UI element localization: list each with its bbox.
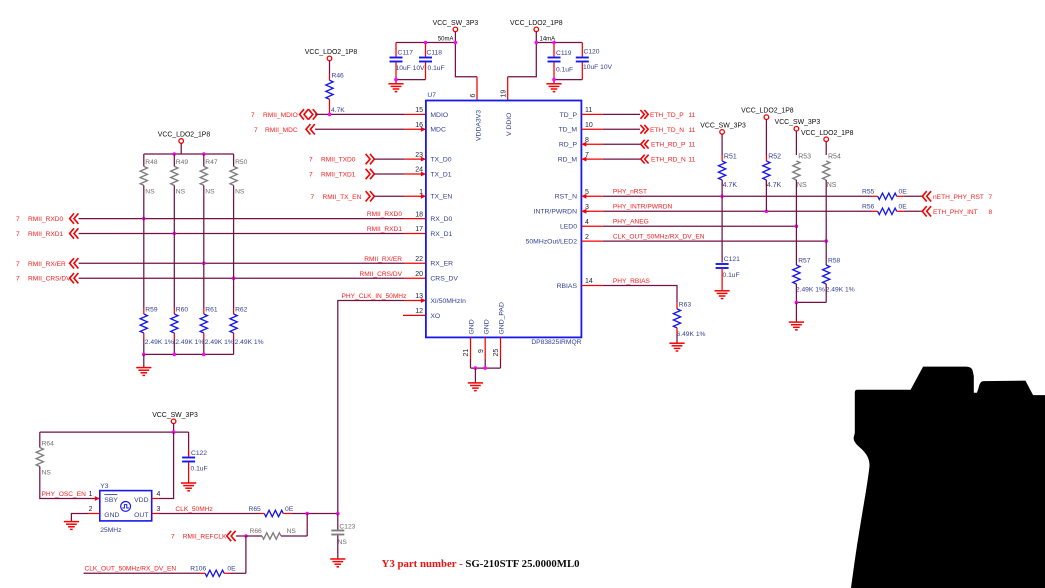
svg-text:PHY_OSC_EN: PHY_OSC_EN xyxy=(42,491,87,498)
svg-text:R60: R60 xyxy=(176,307,189,314)
resistor R50 (NS) xyxy=(230,166,237,185)
resistor R106 xyxy=(205,570,224,576)
wire R49 bottom lead xyxy=(173,185,175,233)
junction C118 top xyxy=(424,41,428,45)
wire R56 left red xyxy=(872,210,878,212)
junction RMII_CRS/DV xyxy=(232,276,236,280)
pin stub Y3 VDD xyxy=(152,498,159,500)
svg-text:24: 24 xyxy=(415,167,423,174)
resistor R57 xyxy=(793,265,800,284)
wire REFCLK to R66 xyxy=(246,535,262,537)
svg-text:GND: GND xyxy=(469,319,476,334)
offpage arrow RMII_RXD0 xyxy=(70,213,79,223)
offpage arrow RMII_RXD1 xyxy=(70,228,79,238)
wire R54/R58 column xyxy=(825,180,827,265)
wire R53 top xyxy=(795,131,797,155)
wire PHY_CLK_IN_50MHz to XI xyxy=(338,301,405,514)
junction rail R61 xyxy=(202,353,206,357)
wire ETH_TD_N xyxy=(603,128,640,130)
wire R106 right red xyxy=(224,572,230,574)
svg-text:NS: NS xyxy=(338,539,348,546)
offpage arrow RMII_RX/ER xyxy=(70,258,79,268)
wire bottom rail C119-C120 xyxy=(554,79,582,81)
svg-text:XI/50MHzIn: XI/50MHzIn xyxy=(430,298,466,305)
wire R66 branch down xyxy=(306,514,308,537)
svg-text:V DDIO: V DDIO xyxy=(506,113,513,136)
svg-text:25: 25 xyxy=(493,349,500,357)
wire ground drop terminations xyxy=(143,354,145,367)
svg-text:21: 21 xyxy=(463,349,470,357)
svg-text:3: 3 xyxy=(157,506,161,513)
wire C120 top lead xyxy=(581,43,583,57)
svg-text:19: 19 xyxy=(501,90,508,98)
ground (C119/C120) xyxy=(546,84,561,92)
wire R62 bottom lead xyxy=(233,333,235,339)
power symbol VCC_LDO2_1P8 (R54) xyxy=(824,137,829,142)
pin stub RMII_CRS/DV xyxy=(404,277,426,279)
svg-text:0.1uF: 0.1uF xyxy=(556,67,573,74)
svg-text:RMII_CRS/DV: RMII_CRS/DV xyxy=(28,276,71,283)
junction rail R60 xyxy=(173,353,177,357)
svg-text:TD_P: TD_P xyxy=(560,112,578,119)
wire R59 bottom lead xyxy=(143,333,145,339)
wire RMII_TXD0 xyxy=(374,158,404,160)
svg-text:RMII_TXD0: RMII_TXD0 xyxy=(321,157,356,164)
resistor R53 (NS) xyxy=(793,161,800,180)
svg-text:C120: C120 xyxy=(584,49,600,56)
pin stub RMII_RXD1 xyxy=(404,233,426,235)
pin stub INTR 3 xyxy=(581,210,603,212)
pin stub LED2 2 xyxy=(581,240,603,242)
svg-text:RMII_MDIO: RMII_MDIO xyxy=(263,112,298,119)
junction power A xyxy=(454,41,458,45)
svg-text:C122: C122 xyxy=(191,450,207,457)
svg-text:ETH_TD_P: ETH_TD_P xyxy=(650,112,684,119)
wire GND drop x=470.5 xyxy=(470,359,472,368)
junction ANEG/R53 xyxy=(795,224,799,228)
offpage arrow ETH_RD_N xyxy=(641,155,649,164)
svg-text:ETH_RD_P: ETH_RD_P xyxy=(651,142,686,149)
pin stub Y3 GND xyxy=(88,513,100,515)
svg-text:7: 7 xyxy=(16,216,20,223)
offpage arrow RMII_CRS/DV xyxy=(70,273,79,283)
svg-text:TX_D1: TX_D1 xyxy=(430,171,451,178)
wire R55 right red xyxy=(897,195,904,197)
ground (U7 GND pins) xyxy=(468,383,483,391)
pin stub RST_N 5 xyxy=(581,195,603,197)
svg-text:50mA: 50mA xyxy=(438,37,454,43)
resistor R63 xyxy=(673,309,680,328)
svg-text:NS: NS xyxy=(287,528,297,535)
svg-text:4: 4 xyxy=(585,219,589,226)
svg-text:R54: R54 xyxy=(828,154,841,161)
svg-text:TX_EN: TX_EN xyxy=(430,194,452,201)
svg-text:CLK_OUT_50MHz/RX_DV_EN: CLK_OUT_50MHz/RX_DV_EN xyxy=(613,234,705,241)
wire R63 top red lead xyxy=(676,302,678,309)
ground (Y3) xyxy=(64,522,79,530)
svg-text:NS: NS xyxy=(827,182,837,189)
wire R65 to C123 node xyxy=(292,513,338,515)
junction C123/XI node xyxy=(336,512,340,516)
wire red pin6 feed xyxy=(476,77,478,101)
junction REFCLK xyxy=(244,534,248,538)
svg-text:11: 11 xyxy=(585,107,592,114)
offpage arrow ETH_TD_P xyxy=(640,110,648,119)
svg-text:PHY_RBIAS: PHY_RBIAS xyxy=(613,278,651,285)
pin stub RMII_RX/ER xyxy=(404,262,426,264)
svg-text:PHY_CLK_IN_50MHz: PHY_CLK_IN_50MHz xyxy=(342,293,407,300)
svg-text:R52: R52 xyxy=(768,154,781,161)
svg-text:R57: R57 xyxy=(798,258,811,265)
svg-text:0.1uF: 0.1uF xyxy=(723,272,740,279)
offpage arrow RMII_REFCLK xyxy=(227,531,236,541)
wire pullup rail xyxy=(144,153,234,155)
wire R65 right red xyxy=(283,513,292,515)
wire R61 red top xyxy=(203,308,205,314)
wire power drop to pin6 xyxy=(455,43,477,77)
junction C119 top xyxy=(552,41,556,45)
wire R59 red top xyxy=(143,308,145,314)
svg-text:0E: 0E xyxy=(899,188,908,195)
wire R60 top lead xyxy=(173,234,175,309)
resistor R49 (NS) xyxy=(171,166,178,185)
pin stub TD_P 11 xyxy=(581,113,603,115)
svg-text:VDDA3V3: VDDA3V3 xyxy=(475,110,482,141)
svg-text:Y3: Y3 xyxy=(100,483,108,490)
wire R56 to arrow xyxy=(904,210,922,212)
svg-text:GND: GND xyxy=(104,512,119,519)
svg-text:R59: R59 xyxy=(145,307,158,314)
svg-text:7: 7 xyxy=(16,261,20,268)
svg-text:MDIO: MDIO xyxy=(430,112,448,119)
svg-text:NS: NS xyxy=(205,188,215,195)
svg-text:C117: C117 xyxy=(398,50,414,57)
offpage arrow RMII_TXD0 xyxy=(366,154,375,164)
wire GND drop x=500.5 xyxy=(500,359,502,368)
capacitor C120 xyxy=(576,58,589,62)
svg-text:1: 1 xyxy=(89,491,93,498)
offpage arrow nETH_PHY_RST xyxy=(922,191,931,201)
svg-text:R106: R106 xyxy=(190,566,206,573)
resistor R48 (NS) xyxy=(140,166,147,185)
svg-text:R64: R64 xyxy=(42,440,55,447)
wire C122 top lead xyxy=(188,432,190,450)
resistor R56 xyxy=(878,208,897,214)
svg-text:RMII_REFCLK: RMII_REFCLK xyxy=(183,534,227,541)
wire Y3 top rail xyxy=(40,431,189,433)
wire ETH_TD_P xyxy=(603,113,640,115)
junction R66 branch xyxy=(305,512,309,516)
power symbol VCC_LDO2_1P8 (R52) xyxy=(764,115,769,120)
power symbol VCC_SW_3P3 (R51) xyxy=(720,130,725,135)
wire R51 bottom to C121 xyxy=(721,180,723,263)
wire R51 red top lead xyxy=(721,155,723,161)
wire CLK_OUT row xyxy=(603,240,826,242)
wire top rail C119-C120 xyxy=(536,42,582,44)
junction GND rail b xyxy=(483,366,487,370)
svg-text:10: 10 xyxy=(585,122,593,129)
wire PHY_INTR/PWRDN xyxy=(603,210,872,212)
svg-text:NS: NS xyxy=(145,188,155,195)
wire R64 bottom lead xyxy=(40,467,94,499)
svg-text:0E: 0E xyxy=(899,203,908,210)
junction RMII_RXD0 xyxy=(142,217,146,221)
wire power stub Y3 xyxy=(173,424,175,433)
svg-text:Y3 part number - SG-210STF 25.: Y3 part number - SG-210STF 25.0000ML0 xyxy=(382,558,580,570)
wire PHY_nRST xyxy=(603,195,872,197)
svg-text:TX_D0: TX_D0 xyxy=(430,157,451,164)
wire C117 bottom lead xyxy=(395,62,397,79)
svg-text:2.49K 1%: 2.49K 1% xyxy=(175,339,204,346)
svg-text:10uF 10V: 10uF 10V xyxy=(396,65,426,72)
junction RMII_RX/ER xyxy=(202,262,206,266)
svg-text:7: 7 xyxy=(989,194,993,201)
wire R62 top lead xyxy=(233,278,235,308)
svg-text:12: 12 xyxy=(415,308,423,315)
resistor R61 xyxy=(200,314,207,333)
wire C123 top lead xyxy=(337,514,339,530)
svg-text:R49: R49 xyxy=(176,159,189,166)
svg-text:20: 20 xyxy=(415,271,423,278)
svg-text:7: 7 xyxy=(311,194,315,201)
wire C123 bottom lead xyxy=(337,535,339,558)
wire ground drop B xyxy=(553,80,555,84)
ground (C122) xyxy=(181,483,196,491)
wire RMII_CRS/DV xyxy=(79,277,405,279)
offpage arrow RMII_MDC xyxy=(306,124,315,134)
svg-text:7: 7 xyxy=(309,172,313,179)
svg-text:4: 4 xyxy=(157,491,161,498)
svg-text:23: 23 xyxy=(415,152,423,159)
svg-text:4.7K: 4.7K xyxy=(723,182,738,189)
wire R63 bottom lead xyxy=(676,328,678,334)
wire RMII_TXD1 xyxy=(374,173,404,175)
wire CLK_50MHz xyxy=(159,513,259,515)
svg-text:2.49K 1%: 2.49K 1% xyxy=(826,287,855,294)
wire RMII_MDC xyxy=(315,128,404,130)
svg-text:NS: NS xyxy=(176,188,186,195)
svg-text:MDC: MDC xyxy=(430,127,446,134)
wire ETH_RD_N xyxy=(603,158,641,160)
pin stub Y3 OUT xyxy=(152,513,159,515)
redaction blob (bottom right) xyxy=(851,367,1045,588)
svg-text:RD_M: RD_M xyxy=(558,157,578,164)
svg-text:R50: R50 xyxy=(235,159,248,166)
offpage arrow ETH_PHY_INT xyxy=(922,206,931,216)
svg-text:nETH_PHY_RST: nETH_PHY_RST xyxy=(933,194,984,201)
wire C118 top lead xyxy=(425,43,427,57)
svg-text:2.49K 1%: 2.49K 1% xyxy=(145,339,174,346)
svg-text:RMII_TX_EN: RMII_TX_EN xyxy=(323,194,362,201)
svg-text:2.49K 1%: 2.49K 1% xyxy=(235,339,264,346)
wire R47 bottom lead xyxy=(203,185,205,263)
wire R55 to arrow xyxy=(904,195,922,197)
svg-text:PHY_nRST: PHY_nRST xyxy=(613,189,647,196)
wire R48 bottom lead xyxy=(143,185,145,218)
ground (R63) xyxy=(669,343,684,351)
svg-text:4.7K: 4.7K xyxy=(331,107,345,114)
svg-text:NS: NS xyxy=(42,470,52,477)
svg-text:RMII_RX/ER: RMII_RX/ER xyxy=(364,256,402,263)
wire R46 bottom red lead xyxy=(329,99,331,114)
power symbol VCC_LDO2_1P8 (top) xyxy=(534,27,539,32)
junction C117 bottom xyxy=(394,78,398,82)
svg-text:R46: R46 xyxy=(332,73,345,80)
svg-text:7: 7 xyxy=(16,276,20,283)
wire RMII_TX_EN xyxy=(374,195,404,197)
wire R54 top xyxy=(825,142,827,155)
svg-text:VCC_LDO2_1P8: VCC_LDO2_1P8 xyxy=(305,49,358,56)
wire red pin19 feed xyxy=(507,77,509,101)
ground (terminations) xyxy=(136,368,151,376)
wire GND rail to ground xyxy=(474,368,476,383)
junction rail R47 xyxy=(202,152,206,156)
svg-text:4.7K: 4.7K xyxy=(767,182,782,189)
svg-text:ETH_RD_N: ETH_RD_N xyxy=(651,157,686,164)
pin stub XO 12 (unconnected) xyxy=(403,314,426,316)
svg-text:8: 8 xyxy=(989,209,993,216)
junction RST/R51 xyxy=(720,195,724,199)
svg-text:ETH_TD_N: ETH_TD_N xyxy=(650,127,684,134)
power symbol VCC_SW_3P3 (top) xyxy=(453,27,458,32)
overline SBY xyxy=(104,494,117,496)
svg-text:13: 13 xyxy=(415,293,423,300)
svg-text:INTR/PWRDN: INTR/PWRDN xyxy=(534,209,578,216)
ground (R57/R58) xyxy=(789,322,804,330)
svg-text:VCC_SW_3P3: VCC_SW_3P3 xyxy=(433,20,479,27)
svg-text:R53: R53 xyxy=(798,154,811,161)
svg-text:17: 17 xyxy=(415,226,423,233)
svg-text:U7: U7 xyxy=(427,92,436,99)
junction R46/MDIO xyxy=(328,113,332,117)
resistor R60 xyxy=(171,314,178,333)
wire termination ground rail xyxy=(144,353,234,355)
wire GND drop x=485.2 xyxy=(484,359,486,368)
svg-text:R61: R61 xyxy=(205,307,218,314)
pin stub RBIAS 14 xyxy=(581,285,603,287)
wire R51 top xyxy=(721,134,723,155)
junction GND rail a xyxy=(474,366,478,370)
svg-text:7: 7 xyxy=(251,112,255,119)
pin stub Y3 SBY xyxy=(94,498,100,500)
svg-text:RMII_RXD1: RMII_RXD1 xyxy=(367,226,403,233)
wire R52 top xyxy=(765,120,767,156)
wire Y3 VDD to rail xyxy=(159,432,174,498)
svg-text:ETH_PHY_INT: ETH_PHY_INT xyxy=(933,209,978,216)
wire R53/R57 column xyxy=(795,180,797,265)
pin stub TX_EN 1 xyxy=(404,195,426,197)
svg-text:7: 7 xyxy=(16,231,20,238)
wire R58 bottom lead xyxy=(825,284,827,302)
svg-text:DP83825IRMQR: DP83825IRMQR xyxy=(531,339,581,346)
wire C121 bottom lead xyxy=(721,268,723,291)
wire C118 bottom lead xyxy=(425,62,427,79)
capacitor C119 xyxy=(548,58,561,62)
wire R49 top lead xyxy=(173,154,175,166)
wire R52 bottom xyxy=(765,180,767,211)
svg-text:RST_N: RST_N xyxy=(555,194,577,201)
svg-text:RD_P: RD_P xyxy=(559,142,578,149)
wire R57 bottom lead xyxy=(795,284,797,302)
svg-text:CLK_OUT_50MHz/RX_DV_EN: CLK_OUT_50MHz/RX_DV_EN xyxy=(85,566,177,573)
pin stub TX_D0 23 xyxy=(404,158,426,160)
capacitor C121 xyxy=(716,264,729,268)
svg-text:C118: C118 xyxy=(427,50,443,57)
svg-text:9: 9 xyxy=(478,349,485,353)
resistor R66 (NS) xyxy=(262,533,281,539)
junction rail R59 xyxy=(142,353,146,357)
svg-text:TD_M: TD_M xyxy=(558,127,577,134)
junction power B xyxy=(535,41,539,45)
resistor R54 (NS) xyxy=(823,161,830,180)
svg-text:11: 11 xyxy=(689,112,696,119)
wire RMII_RXD0 xyxy=(79,218,405,220)
svg-text:RMII_RXD0: RMII_RXD0 xyxy=(367,211,403,218)
power symbol VCC_SW_3P3 (Y3) xyxy=(171,419,176,424)
wire R56 right red xyxy=(897,210,904,212)
svg-text:GND: GND xyxy=(483,319,490,334)
oscillator waveform symbol xyxy=(121,502,131,512)
wire RMII_RX/ER xyxy=(79,262,405,264)
resistor R64 (NS) xyxy=(36,448,43,467)
svg-text:RX_D0: RX_D0 xyxy=(430,216,452,223)
svg-text:VCC_LDO2_1P8: VCC_LDO2_1P8 xyxy=(158,132,211,139)
svg-text:RBIAS: RBIAS xyxy=(557,283,578,290)
svg-text:25MHz: 25MHz xyxy=(100,527,122,534)
svg-text:GND_PAD: GND_PAD xyxy=(499,302,506,334)
pin stub TD_M 10 xyxy=(581,128,603,130)
wire Y3 GND to ground xyxy=(71,514,88,522)
svg-text:R48: R48 xyxy=(145,159,158,166)
wire rail to ground xyxy=(795,302,797,321)
svg-text:RMII_RXD1: RMII_RXD1 xyxy=(28,231,64,238)
pin stub XI 13 xyxy=(404,300,426,302)
wire C119 bottom lead xyxy=(553,62,555,79)
svg-text:RMII_TXD1: RMII_TXD1 xyxy=(321,172,356,179)
svg-text:RMII_RX/ER: RMII_RX/ER xyxy=(28,261,66,268)
resistor R65 xyxy=(264,510,283,516)
ground (C117/C118) xyxy=(388,84,403,92)
svg-text:RX_ER: RX_ER xyxy=(430,261,453,268)
IC U7 DP83825IRMQR body xyxy=(426,101,582,338)
svg-text:VCC_SW_3P3: VCC_SW_3P3 xyxy=(152,412,198,419)
wire ETH_RD_P xyxy=(603,143,641,145)
svg-text:NS: NS xyxy=(235,188,245,195)
resistor R62 xyxy=(230,314,237,333)
resistor R46 xyxy=(326,80,333,99)
wire R51 red bottom lead xyxy=(721,180,723,186)
power symbol VCC_LDO2_1P8 (pullups) xyxy=(179,139,184,144)
svg-text:2: 2 xyxy=(89,506,93,513)
svg-text:6.49K 1%: 6.49K 1% xyxy=(677,331,706,338)
svg-text:RMII_MDC: RMII_MDC xyxy=(265,127,298,134)
svg-text:VDD: VDD xyxy=(134,497,148,504)
svg-text:0.1uF: 0.1uF xyxy=(428,65,445,72)
svg-text:15: 15 xyxy=(415,107,423,114)
wire ground drop A xyxy=(395,80,397,84)
svg-text:VCC_LDO2_1P8: VCC_LDO2_1P8 xyxy=(741,108,794,115)
svg-text:R56: R56 xyxy=(862,203,875,210)
wire R48 top lead xyxy=(143,154,145,166)
svg-text:R65: R65 xyxy=(249,506,262,513)
wire R59 top lead xyxy=(143,219,145,308)
pin stub MDIO 15 xyxy=(404,113,426,115)
wire R52 red top lead xyxy=(765,155,767,161)
wire R60 red top xyxy=(173,308,175,314)
pin stub GND x=470.5 xyxy=(470,337,472,359)
power symbol VCC_LDO2_1P8 (R46) xyxy=(327,56,332,61)
junction R57 rail xyxy=(795,301,799,305)
